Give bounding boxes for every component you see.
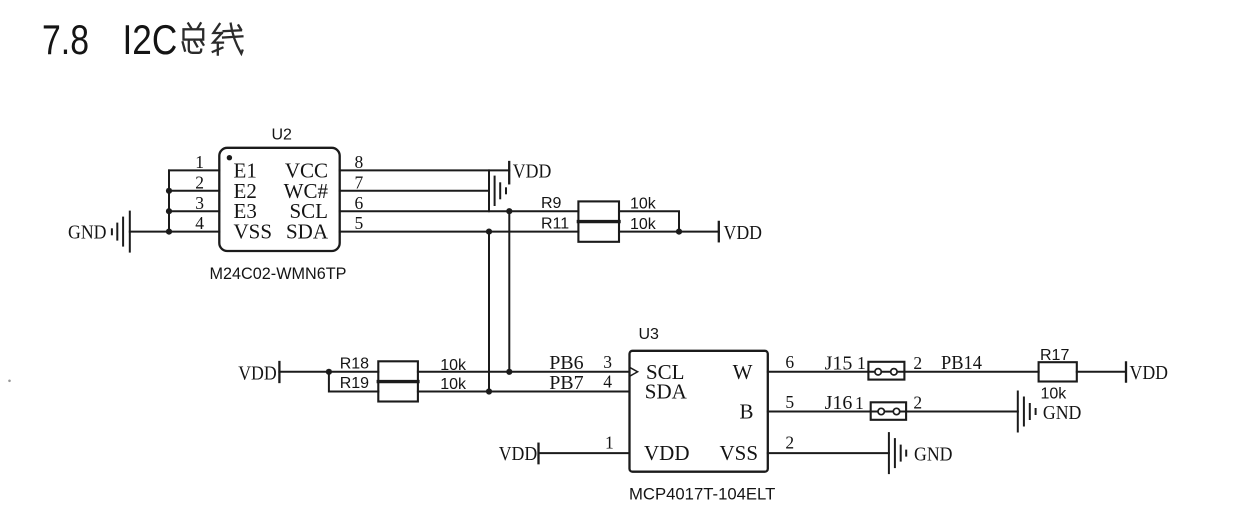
- svg-text:1: 1: [195, 152, 204, 172]
- svg-text:PB14: PB14: [941, 352, 982, 374]
- wire SCL vertical drop: [508, 211, 510, 372]
- svg-text:M24C02-WMN6TP: M24C02-WMN6TP: [210, 264, 347, 283]
- wire GND to U2 pin4: [130, 231, 220, 233]
- svg-text:J15: J15: [825, 352, 853, 374]
- J16 pad 2: [893, 408, 899, 414]
- svg-text:8: 8: [355, 152, 364, 172]
- wire PB6 row: [418, 371, 630, 373]
- junction at pin2: [166, 188, 172, 194]
- svg-text:5: 5: [785, 392, 794, 412]
- ground symbol left: [112, 212, 130, 252]
- resistor R11 body: [578, 222, 619, 242]
- jumper J15 body: [868, 362, 904, 380]
- svg-text:VDD: VDD: [238, 362, 277, 384]
- svg-text:6: 6: [355, 193, 364, 213]
- junction SDA top: [486, 229, 492, 235]
- svg-text:6: 6: [785, 352, 794, 372]
- junction at pin3: [166, 208, 172, 214]
- wire R11 out to VDD: [619, 231, 719, 233]
- svg-text:R19: R19: [340, 375, 369, 392]
- svg-text:3: 3: [603, 352, 612, 372]
- svg-text:VDD: VDD: [499, 443, 538, 465]
- svg-text:U3: U3: [639, 326, 660, 343]
- svg-text:2: 2: [195, 172, 204, 192]
- VDD bar (right): [1125, 362, 1127, 381]
- wire VCC pin8: [340, 169, 510, 171]
- wire VDD to junction: [279, 371, 378, 373]
- shared bold edge R18/R19: [378, 380, 418, 383]
- svg-text:10k: 10k: [630, 216, 657, 233]
- junction SCL drop on PB6: [506, 369, 512, 375]
- VDD bar (top): [508, 162, 510, 183]
- svg-text:7: 7: [355, 172, 364, 192]
- wire WC# pin7: [340, 190, 489, 192]
- svg-text:R9: R9: [541, 195, 562, 212]
- J16 pad 1: [878, 408, 884, 414]
- wire through J16: [871, 411, 906, 413]
- wire SCL pin6: [340, 210, 579, 212]
- svg-text:10k: 10k: [1041, 386, 1068, 403]
- wire R17 to VDD: [1077, 371, 1126, 373]
- VDD bar (pin1): [537, 444, 539, 464]
- svg-text:5: 5: [355, 213, 364, 233]
- svg-text:1: 1: [855, 393, 864, 413]
- svg-text:2: 2: [785, 433, 794, 453]
- wire U2 pin3 stub: [169, 210, 219, 212]
- svg-text:VDD: VDD: [724, 222, 763, 244]
- resistor R9 body: [578, 201, 619, 221]
- junction at pin4: [166, 229, 172, 235]
- wire B pin5: [768, 411, 871, 413]
- wire W pin6: [768, 371, 869, 373]
- resistor R19 body: [378, 382, 418, 402]
- svg-text:R11: R11: [541, 215, 569, 232]
- VDD bar (left lower): [278, 362, 280, 382]
- wire VSS pin2: [768, 452, 889, 454]
- svg-text:U2: U2: [272, 127, 293, 144]
- junction VDD split: [326, 369, 332, 375]
- wire through J15: [868, 371, 904, 373]
- wire J15 to R17: [904, 371, 1038, 373]
- svg-text:B: B: [739, 400, 753, 424]
- svg-text:VSS: VSS: [234, 220, 273, 244]
- svg-text:VDD: VDD: [644, 441, 690, 465]
- wire VDD pin1: [539, 452, 630, 454]
- wire SDA pin5: [340, 231, 579, 233]
- svg-text:SDA: SDA: [645, 379, 688, 403]
- U3 chip body: [630, 351, 768, 472]
- U2 chip body: [219, 148, 339, 251]
- J15 pad 1: [875, 369, 881, 375]
- svg-text:VSS: VSS: [719, 441, 758, 465]
- svg-text:GND: GND: [914, 444, 953, 466]
- svg-text:I2C: I2C: [123, 16, 178, 63]
- svg-text:R18: R18: [340, 355, 369, 372]
- svg-text:SDA: SDA: [286, 220, 329, 244]
- svg-text:1: 1: [857, 353, 866, 373]
- wire U2 pin1 stub: [169, 169, 219, 171]
- svg-text:2: 2: [913, 353, 922, 373]
- clock marker on SCL: [630, 367, 638, 376]
- svg-text:GND: GND: [68, 221, 107, 243]
- svg-text:J16: J16: [825, 392, 853, 414]
- svg-text:VDD: VDD: [513, 161, 552, 183]
- wire R9 out: [619, 211, 679, 231]
- wire U2 pin2 stub: [169, 190, 219, 192]
- svg-text:1: 1: [605, 433, 614, 453]
- svg-text:4: 4: [195, 213, 204, 233]
- J15 pad 2: [891, 369, 897, 375]
- svg-text:7.8: 7.8: [42, 16, 89, 63]
- svg-text:4: 4: [603, 372, 612, 392]
- svg-text:MCP4017T-104ELT: MCP4017T-104ELT: [629, 485, 775, 504]
- wire SDA vertical drop: [488, 232, 490, 392]
- wire junction down to R19 row: [329, 372, 378, 392]
- title hanzi 总: [183, 23, 204, 53]
- shared bold edge R9/R11: [578, 220, 619, 223]
- junction SDA drop on PB7: [486, 388, 492, 394]
- svg-text:10k: 10k: [630, 196, 657, 213]
- ground symbol at VSS: [889, 433, 906, 473]
- svg-text:GND: GND: [1043, 402, 1082, 424]
- svg-text:W: W: [733, 360, 753, 384]
- svg-text:3: 3: [195, 193, 204, 213]
- ground symbol at WC#: [489, 170, 506, 211]
- jumper J16 body: [871, 402, 906, 420]
- VDD bar (right of R11): [718, 222, 720, 241]
- svg-text:2: 2: [913, 393, 922, 413]
- scan artifact dot: [8, 380, 11, 383]
- junction R9/R11 out: [676, 229, 682, 235]
- svg-text:PB7: PB7: [549, 372, 583, 394]
- U2 pin1 indicator dot: [227, 155, 232, 160]
- wire left bus vertical: [168, 170, 170, 231]
- wire J16 to GND: [906, 411, 1018, 413]
- resistor R18 body: [378, 361, 418, 381]
- resistor R17 body: [1039, 362, 1077, 381]
- title hanzi 线: [213, 24, 243, 55]
- ground symbol at B: [1018, 392, 1036, 432]
- svg-text:PB6: PB6: [549, 352, 583, 374]
- wire PB7 row: [418, 391, 630, 393]
- junction SCL top: [506, 208, 512, 214]
- svg-text:VDD: VDD: [1130, 362, 1169, 384]
